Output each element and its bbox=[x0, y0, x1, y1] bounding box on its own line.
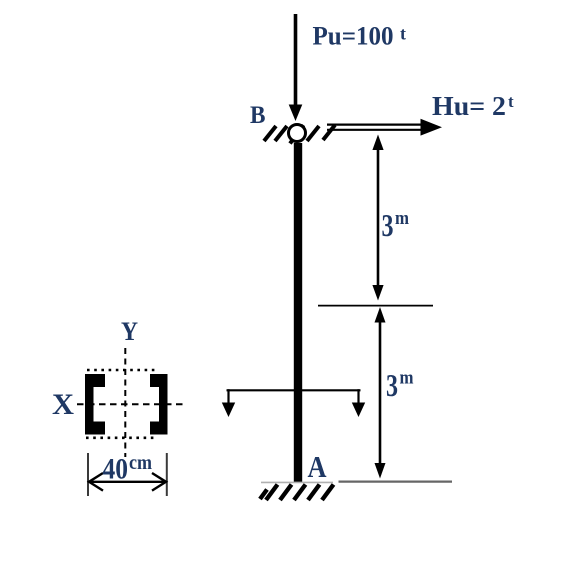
load arrow Pu (vertical force line) bbox=[289, 14, 303, 121]
svg-text:Hu= 2: Hu= 2 bbox=[432, 91, 506, 121]
dimension 40cm arrow bbox=[89, 473, 166, 491]
label 3m lower bbox=[386, 367, 414, 403]
section dotted outline top bbox=[87, 369, 159, 372]
dimension line 3m upper bbox=[372, 135, 383, 301]
lateral bracing line with two down arrows bbox=[222, 389, 365, 417]
fixed support A (ground line) bbox=[261, 481, 333, 483]
svg-text:3: 3 bbox=[382, 207, 394, 243]
ground reference line right of A bbox=[339, 481, 453, 483]
section axis X (dashed) bbox=[77, 403, 183, 405]
svg-text:Y: Y bbox=[121, 317, 138, 346]
column AB bbox=[294, 143, 302, 482]
dimension 40cm ticks bbox=[88, 453, 167, 496]
fixed support A hatching bbox=[260, 485, 334, 501]
svg-text:m: m bbox=[395, 208, 409, 229]
svg-text:m: m bbox=[400, 368, 414, 389]
svg-text:B: B bbox=[250, 102, 266, 129]
label 3m upper bbox=[382, 207, 410, 243]
svg-text:Pu=100: Pu=100 bbox=[313, 21, 394, 50]
svg-text:cm: cm bbox=[129, 450, 152, 474]
force arrow Hu (double line) bbox=[327, 119, 442, 136]
svg-text:3: 3 bbox=[386, 367, 398, 403]
mid-height tick line bbox=[318, 305, 433, 307]
dimension line 3m lower bbox=[375, 307, 386, 479]
section dotted outline bottom bbox=[86, 436, 158, 439]
label Hu= 2 t bbox=[432, 91, 514, 121]
svg-text:t: t bbox=[508, 92, 514, 111]
section axis Y (dashed) bbox=[124, 348, 126, 457]
label 40cm bbox=[103, 450, 153, 485]
svg-text:A: A bbox=[308, 449, 328, 484]
channel section right bbox=[150, 374, 168, 435]
pin support B (roller circle) bbox=[289, 125, 306, 142]
svg-text:t: t bbox=[400, 24, 406, 44]
channel section left bbox=[85, 374, 105, 435]
svg-text:X: X bbox=[52, 388, 74, 421]
label Pu=100 t bbox=[313, 21, 407, 50]
svg-text:40: 40 bbox=[103, 453, 129, 486]
hatch marks at support B bbox=[264, 125, 335, 144]
